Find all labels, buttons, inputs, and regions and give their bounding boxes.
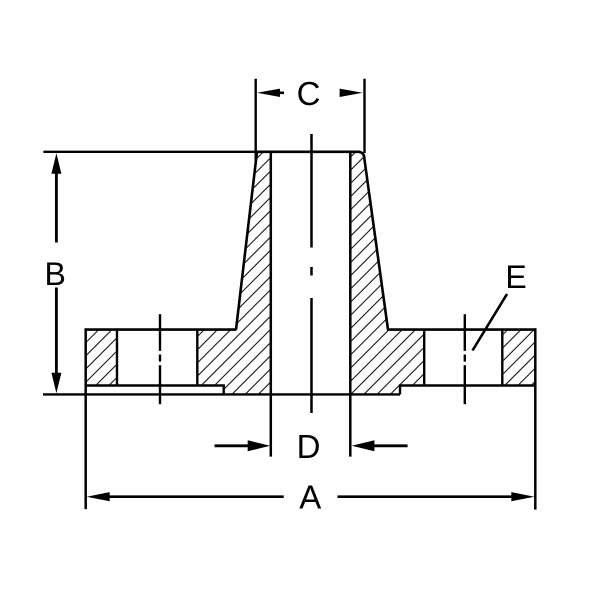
- flange top left: [86, 328, 237, 331]
- dim C right arrow: [340, 89, 363, 97]
- flange top right: [387, 328, 535, 331]
- dim C extension left: [254, 79, 256, 163]
- dim D left tail and arrow: [215, 444, 251, 447]
- svg-text:C: C: [297, 75, 321, 112]
- raised face step right: [399, 386, 401, 395]
- svg-text:A: A: [299, 479, 321, 516]
- dim C extension right: [363, 79, 365, 153]
- hatch hub-right section: [350, 152, 424, 395]
- raised face step left: [222, 386, 224, 395]
- flange bottom right: [399, 384, 536, 387]
- bore left wall: [270, 152, 273, 457]
- dim A line right + arrow: [338, 495, 514, 498]
- neck right outer wall: [364, 156, 388, 330]
- flange left edge + A extension: [84, 328, 87, 509]
- bolt centerline right: [464, 314, 466, 404]
- neck left outer wall: [236, 152, 257, 330]
- wire top reference line (B/C extension): [43, 151, 258, 153]
- flange bottom left: [86, 384, 225, 387]
- svg-text:B: B: [45, 256, 66, 292]
- leader E: [473, 294, 508, 351]
- hatch flange left outer section: [86, 330, 117, 386]
- dim A line left + arrow: [108, 495, 284, 498]
- dim C left arrow: [257, 89, 284, 97]
- bolt hole left: right edge: [196, 330, 198, 386]
- bolt hole right: left edge: [423, 330, 425, 386]
- baseline + raised face bottom: [43, 393, 400, 395]
- bolt hole left: left edge: [116, 330, 118, 386]
- flange right edge + A extension: [534, 328, 537, 509]
- neck top face: [256, 152, 364, 158]
- hatch hub-left section: [197, 152, 270, 395]
- main centerline: [310, 134, 313, 413]
- bolt centerline left: [159, 314, 161, 404]
- dim B arrows and shaft: [51, 153, 61, 393]
- bore right wall: [349, 152, 352, 457]
- hatch flange right outer section: [502, 330, 535, 386]
- svg-text:E: E: [505, 259, 526, 295]
- svg-text:D: D: [297, 428, 321, 465]
- dim D right arrow and tail: [352, 440, 375, 451]
- bolt hole right: right edge: [501, 330, 503, 386]
